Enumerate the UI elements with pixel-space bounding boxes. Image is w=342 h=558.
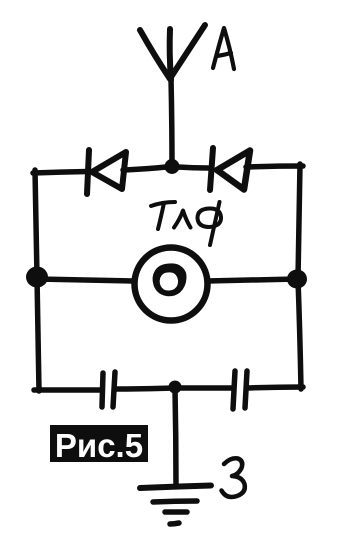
wire bottom-center segment — [116, 388, 232, 389]
label Тлф (telephone) — [151, 202, 221, 245]
wire antenna lead — [171, 78, 172, 166]
label A (antenna) — [213, 28, 234, 69]
antenna symbol — [140, 25, 205, 80]
wire top-left segment — [33, 172, 88, 174]
capacitor C1 (left) — [102, 372, 115, 407]
node top junction — [165, 159, 180, 174]
wire middle-right segment — [207, 279, 297, 281]
diode V2 (right) — [210, 148, 250, 190]
earphone BF1 (Тлф) — [135, 248, 208, 321]
wire bottom-right segment — [248, 387, 303, 388]
wire bottom-left segment — [34, 387, 101, 393]
wire top-right segment — [246, 166, 303, 167]
node right junction — [287, 270, 307, 289]
svg-text:Рис.5: Рис.5 — [55, 427, 143, 464]
diode V1 (left) — [87, 150, 126, 194]
wire right rail — [298, 164, 301, 389]
node left junction — [26, 267, 48, 288]
ground symbol (З - earth) — [140, 486, 211, 525]
wire left rail — [35, 170, 39, 391]
node bottom junction — [169, 381, 182, 394]
wire between node and right diode — [178, 167, 208, 168]
capacitor C2 (right) — [233, 371, 247, 409]
wire middle-left segment — [37, 279, 133, 281]
wire ground lead — [175, 389, 176, 486]
label З (earth) — [222, 458, 245, 497]
wire between left diode and node — [123, 167, 166, 170]
label Рис.5 (figure caption) — [50, 425, 148, 464]
